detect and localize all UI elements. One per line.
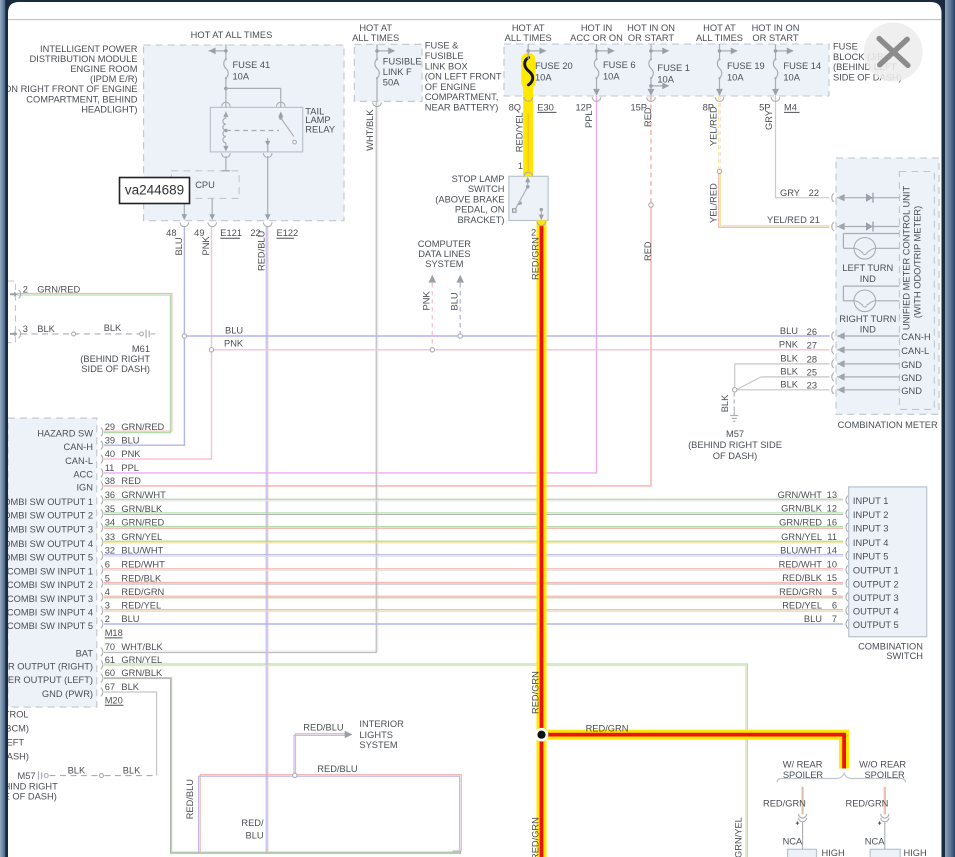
svg-text:RED/BLU: RED/BLU	[303, 722, 343, 732]
svg-text:STOP LAMP: STOP LAMP	[452, 174, 505, 184]
svg-text:10A: 10A	[535, 73, 552, 83]
svg-text:GND: GND	[901, 386, 922, 396]
svg-text:RED/BLU: RED/BLU	[256, 231, 266, 271]
svg-text:BLK: BLK	[121, 682, 139, 692]
svg-text:LIGHTS: LIGHTS	[359, 730, 393, 740]
svg-text:CPU: CPU	[195, 180, 215, 190]
svg-text:48: 48	[166, 228, 176, 238]
svg-text:COMBI SW INPUT 4: COMBI SW INPUT 4	[7, 607, 93, 617]
svg-text:11: 11	[105, 463, 115, 473]
svg-text:BLK: BLK	[780, 354, 798, 364]
svg-text:10A: 10A	[783, 73, 800, 83]
svg-text:OR START: OR START	[628, 33, 674, 43]
svg-text:5: 5	[832, 587, 837, 597]
svg-text:IGN: IGN	[76, 483, 93, 493]
svg-text:IND: IND	[860, 324, 876, 334]
svg-text:RED/GRN: RED/GRN	[846, 799, 889, 809]
svg-text:COMPARTMENT,: COMPARTMENT,	[425, 92, 499, 102]
svg-text:FUSE 20: FUSE 20	[535, 61, 573, 71]
svg-text:RED/GRN: RED/GRN	[586, 723, 629, 733]
svg-text:BLU: BLU	[804, 614, 822, 624]
svg-text:INPUT 2: INPUT 2	[853, 510, 888, 520]
svg-text:BLU: BLU	[121, 614, 139, 624]
svg-text:GRN/YEL: GRN/YEL	[781, 532, 822, 542]
svg-text:SIDE OF DASH): SIDE OF DASH)	[81, 364, 150, 374]
svg-text:RED/YEL: RED/YEL	[782, 600, 822, 610]
svg-text:SYSTEM: SYSTEM	[425, 259, 463, 269]
svg-text:PNK: PNK	[779, 340, 799, 350]
svg-text:M18: M18	[105, 628, 123, 638]
svg-text:FUSE 41: FUSE 41	[233, 60, 271, 70]
svg-text:HOT AT: HOT AT	[359, 23, 392, 33]
svg-text:YEL/RED: YEL/RED	[708, 183, 718, 223]
svg-text:GRN/YEL: GRN/YEL	[121, 655, 162, 665]
svg-text:BAT: BAT	[76, 649, 94, 659]
svg-text:GRN/RED: GRN/RED	[779, 517, 822, 527]
svg-text:COMBI SW OUTPUT 2: COMBI SW OUTPUT 2	[0, 511, 93, 521]
svg-text:70: 70	[105, 642, 115, 652]
svg-text:FLASHER OUTPUT (LEFT): FLASHER OUTPUT (LEFT)	[0, 675, 93, 685]
svg-text:HAZARD SW: HAZARD SW	[37, 429, 93, 439]
svg-text:GRN/WHT: GRN/WHT	[121, 490, 166, 500]
svg-text:GRN/RED: GRN/RED	[121, 518, 164, 528]
svg-text:33: 33	[105, 532, 115, 542]
svg-text:PEDAL, ON: PEDAL, ON	[455, 205, 505, 215]
svg-text:RELAY: RELAY	[305, 125, 335, 135]
svg-text:GRY: GRY	[764, 110, 774, 130]
svg-text:M57: M57	[726, 429, 744, 439]
svg-text:W/ REAR: W/ REAR	[783, 759, 823, 769]
svg-text:6: 6	[105, 560, 110, 570]
svg-text:7: 7	[832, 614, 837, 624]
svg-text:(ABOVE BRAKE: (ABOVE BRAKE	[435, 195, 504, 205]
svg-text:2: 2	[23, 284, 28, 294]
svg-text:BLK: BLK	[780, 367, 798, 377]
svg-text:10A: 10A	[233, 71, 250, 81]
svg-text:OR START: OR START	[752, 33, 798, 43]
svg-text:GRN/RED: GRN/RED	[121, 422, 164, 432]
svg-text:26: 26	[807, 327, 817, 337]
svg-text:RED/GRN: RED/GRN	[531, 671, 541, 714]
svg-text:LEFT TURN: LEFT TURN	[842, 263, 893, 273]
svg-text:36: 36	[105, 490, 115, 500]
svg-text:60: 60	[105, 668, 115, 678]
svg-text:RED/GRN: RED/GRN	[531, 817, 541, 857]
svg-text:OUTPUT 1: OUTPUT 1	[853, 566, 899, 576]
svg-text:6: 6	[832, 600, 837, 610]
svg-text:(WITH ODO/TRIP METER): (WITH ODO/TRIP METER)	[913, 206, 923, 318]
svg-text:21: 21	[810, 215, 820, 225]
svg-text:RED/GRN: RED/GRN	[779, 587, 822, 597]
svg-text:OF ENGINE: OF ENGINE	[425, 82, 476, 92]
svg-text:WHT/BLK: WHT/BLK	[121, 642, 163, 652]
svg-text:FUSE: FUSE	[833, 41, 858, 51]
svg-text:E121: E121	[220, 228, 242, 238]
svg-text:NEAR BATTERY): NEAR BATTERY)	[425, 103, 499, 113]
svg-text:RED/YEL: RED/YEL	[121, 601, 161, 611]
svg-text:COMBI SW OUTPUT 3: COMBI SW OUTPUT 3	[0, 524, 93, 534]
svg-text:50A: 50A	[383, 77, 400, 87]
svg-text:32: 32	[105, 546, 115, 556]
svg-text:GND (PWR): GND (PWR)	[42, 689, 93, 699]
svg-text:CAN-L: CAN-L	[901, 346, 929, 356]
svg-text:RED: RED	[121, 476, 141, 486]
svg-text:M20: M20	[105, 695, 123, 705]
svg-text:SPOILER: SPOILER	[783, 770, 824, 780]
svg-text:GRN/BLK: GRN/BLK	[121, 668, 163, 678]
svg-text:DATA LINES: DATA LINES	[418, 249, 470, 259]
svg-text:3: 3	[23, 324, 28, 334]
svg-text:ENGINE ROOM: ENGINE ROOM	[70, 64, 137, 74]
svg-text:HOT IN ON: HOT IN ON	[752, 23, 800, 33]
svg-text:BLK: BLK	[123, 766, 141, 776]
svg-text:UNIFIED METER CONTROL UNIT: UNIFIED METER CONTROL UNIT	[902, 186, 912, 331]
svg-text:HOT AT: HOT AT	[703, 23, 736, 33]
svg-text:COMBI SW INPUT 5: COMBI SW INPUT 5	[7, 621, 93, 631]
svg-text:BLU: BLU	[174, 237, 184, 255]
svg-text:29: 29	[105, 422, 115, 432]
svg-text:BLU: BLU	[246, 831, 264, 841]
svg-text:FUSIBLE: FUSIBLE	[425, 51, 464, 61]
svg-text:HIGH: HIGH	[822, 848, 845, 857]
svg-text:COMBI SW INPUT 2: COMBI SW INPUT 2	[7, 580, 93, 590]
svg-text:GND: GND	[901, 360, 922, 370]
svg-text:RIGHT TURN: RIGHT TURN	[839, 314, 896, 324]
svg-text:61: 61	[105, 655, 115, 665]
svg-text:38: 38	[105, 476, 115, 486]
svg-text:PPL: PPL	[584, 110, 594, 128]
svg-text:28: 28	[807, 355, 817, 365]
svg-text:LINK F: LINK F	[383, 67, 412, 77]
svg-text:RED/BLU: RED/BLU	[317, 764, 357, 774]
svg-text:8Q: 8Q	[509, 102, 521, 112]
svg-text:39: 39	[105, 435, 115, 445]
svg-text:FUSE &: FUSE &	[425, 41, 459, 51]
svg-text:SIDE OF DASH): SIDE OF DASH)	[0, 791, 57, 801]
svg-text:GND: GND	[901, 373, 922, 383]
svg-text:CAN-H: CAN-H	[901, 332, 930, 342]
svg-text:HOT IN: HOT IN	[581, 23, 612, 33]
svg-text:(ON RIGHT FRONT OF ENGINE: (ON RIGHT FRONT OF ENGINE	[1, 84, 138, 94]
svg-text:HOT IN ON: HOT IN ON	[627, 23, 675, 33]
svg-text:OUTPUT 4: OUTPUT 4	[853, 607, 899, 617]
svg-text:25: 25	[807, 368, 817, 378]
svg-text:COMBI SW INPUT 3: COMBI SW INPUT 3	[7, 594, 93, 604]
svg-text:INTELLIGENT POWER: INTELLIGENT POWER	[40, 44, 138, 54]
svg-text:FLASHER OUTPUT (RIGHT): FLASHER OUTPUT (RIGHT)	[0, 662, 93, 672]
svg-text:ALL TIMES: ALL TIMES	[696, 33, 743, 43]
svg-text:W/O REAR: W/O REAR	[859, 759, 906, 769]
svg-text:SPOILER: SPOILER	[864, 770, 905, 780]
svg-text:BLK: BLK	[780, 380, 798, 390]
svg-text:35: 35	[105, 504, 115, 514]
svg-text:E30: E30	[537, 102, 554, 112]
svg-text:10A: 10A	[657, 75, 674, 85]
svg-text:2: 2	[105, 614, 110, 624]
svg-text:27: 27	[807, 341, 817, 351]
svg-text:INTERIOR: INTERIOR	[359, 719, 404, 729]
svg-text:1: 1	[518, 161, 523, 171]
svg-text:11: 11	[827, 532, 837, 542]
svg-text:40: 40	[105, 449, 115, 459]
svg-text:BRACKET): BRACKET)	[457, 215, 504, 225]
svg-text:GRN/BLK: GRN/BLK	[781, 504, 823, 514]
svg-text:67: 67	[105, 682, 115, 692]
svg-text:ACC OR ON: ACC OR ON	[570, 33, 623, 43]
svg-text:BLK: BLK	[37, 324, 55, 334]
svg-text:va244689: va244689	[125, 183, 184, 198]
svg-text:10: 10	[827, 559, 837, 569]
svg-text:OUTPUT 3: OUTPUT 3	[853, 593, 899, 603]
svg-text:ACC: ACC	[73, 470, 93, 480]
svg-text:(BEHIND RIGHT: (BEHIND RIGHT	[0, 782, 58, 792]
svg-text:15: 15	[827, 573, 837, 583]
svg-text:GRN/WHT: GRN/WHT	[778, 490, 823, 500]
svg-text:SYSTEM: SYSTEM	[359, 740, 397, 750]
svg-text:HEADLIGHT): HEADLIGHT)	[81, 104, 137, 114]
svg-text:CAN-L: CAN-L	[65, 456, 93, 466]
svg-text:PNK: PNK	[121, 449, 141, 459]
svg-text:RED/WHT: RED/WHT	[121, 560, 165, 570]
svg-text:COMBI SW OUTPUT 4: COMBI SW OUTPUT 4	[0, 539, 93, 549]
svg-text:COMBI SW OUTPUT 1: COMBI SW OUTPUT 1	[0, 497, 93, 507]
svg-text:PPL: PPL	[121, 463, 139, 473]
svg-text:M57: M57	[18, 771, 36, 781]
svg-text:YEL/RED: YEL/RED	[708, 106, 718, 146]
svg-text:GRN/RED: GRN/RED	[37, 284, 80, 294]
svg-text:RED/BLK: RED/BLK	[782, 573, 823, 583]
svg-text:2: 2	[531, 227, 536, 237]
svg-text:ALL TIMES: ALL TIMES	[352, 33, 399, 43]
svg-text:FUSE 14: FUSE 14	[783, 61, 821, 71]
svg-text:4: 4	[105, 587, 110, 597]
svg-text:HIGH: HIGH	[904, 848, 927, 857]
svg-text:HOT AT ALL TIMES: HOT AT ALL TIMES	[191, 30, 273, 40]
svg-text:(ON LEFT FRONT: (ON LEFT FRONT	[425, 72, 502, 82]
svg-text:WHT/BLK: WHT/BLK	[365, 109, 375, 151]
svg-text:22: 22	[809, 188, 819, 198]
svg-text:BLU: BLU	[225, 326, 243, 336]
svg-text:BLU/WHT: BLU/WHT	[780, 545, 822, 555]
svg-text:INPUT 5: INPUT 5	[853, 552, 888, 562]
svg-text:FUSIBLE: FUSIBLE	[383, 57, 422, 67]
svg-text:GRY: GRY	[780, 188, 800, 198]
svg-text:BLU: BLU	[780, 326, 798, 336]
svg-text:BLK: BLK	[104, 323, 122, 333]
svg-text:DISTRIBUTION MODULE: DISTRIBUTION MODULE	[30, 54, 138, 64]
svg-text:INPUT 1: INPUT 1	[853, 496, 888, 506]
svg-text:PNK: PNK	[422, 291, 432, 311]
svg-text:COMBINATION: COMBINATION	[858, 641, 923, 651]
svg-text:RED/BLU: RED/BLU	[185, 779, 195, 819]
svg-text:BLK: BLK	[720, 394, 730, 412]
svg-text:BLU/WHT: BLU/WHT	[121, 546, 163, 556]
svg-text:14: 14	[827, 545, 837, 555]
svg-text:GRN/YEL: GRN/YEL	[121, 532, 162, 542]
svg-text:M61: M61	[132, 344, 150, 354]
svg-text:RED/WHT: RED/WHT	[779, 559, 823, 569]
svg-text:COMBINATION METER: COMBINATION METER	[838, 420, 938, 430]
svg-text:PNK: PNK	[201, 236, 211, 256]
svg-text:SWITCH: SWITCH	[468, 184, 505, 194]
svg-text:GRN/YEL: GRN/YEL	[734, 817, 744, 857]
svg-text:(BEHIND RIGHT: (BEHIND RIGHT	[80, 354, 150, 364]
svg-text:RED: RED	[643, 241, 653, 261]
svg-text:E122: E122	[277, 228, 299, 238]
svg-text:PNK: PNK	[224, 339, 244, 349]
svg-text:(IPDM E/R): (IPDM E/R)	[90, 74, 138, 84]
svg-text:RED: RED	[643, 107, 653, 127]
svg-text:OUTPUT 2: OUTPUT 2	[853, 579, 899, 589]
svg-text:RED/GRN: RED/GRN	[531, 237, 541, 280]
svg-text:10A: 10A	[727, 73, 744, 83]
svg-text:RED/GRN: RED/GRN	[763, 799, 806, 809]
svg-text:RED/YEL: RED/YEL	[515, 112, 525, 152]
svg-text:5: 5	[105, 573, 110, 583]
svg-text:GRN/BLK: GRN/BLK	[121, 504, 163, 514]
svg-text:M4: M4	[784, 102, 797, 112]
svg-text:BLU: BLU	[449, 292, 459, 310]
svg-text:SWITCH: SWITCH	[886, 651, 923, 661]
svg-text:COMBI SW INPUT 1: COMBI SW INPUT 1	[7, 566, 93, 576]
svg-text:YEL/RED: YEL/RED	[767, 215, 807, 225]
svg-text:COMBI SW OUTPUT 5: COMBI SW OUTPUT 5	[0, 552, 93, 562]
svg-text:RED/: RED/	[241, 818, 264, 828]
svg-text:NCA: NCA	[783, 836, 803, 846]
svg-text:LINK BOX: LINK BOX	[425, 61, 468, 71]
svg-text:RED/BLK: RED/BLK	[121, 573, 162, 583]
svg-text:OUTPUT 5: OUTPUT 5	[853, 620, 899, 630]
svg-text:COMPUTER: COMPUTER	[418, 239, 471, 249]
svg-text:13: 13	[827, 490, 837, 500]
svg-text:RED/GRN: RED/GRN	[121, 587, 164, 597]
svg-text:FUSE 1: FUSE 1	[657, 63, 690, 73]
svg-text:INPUT 4: INPUT 4	[853, 538, 888, 548]
svg-text:34: 34	[105, 518, 115, 528]
svg-text:23: 23	[807, 381, 817, 391]
svg-text:FUSE 19: FUSE 19	[727, 61, 765, 71]
svg-text:HOT AT: HOT AT	[512, 23, 545, 33]
svg-text:CAN-H: CAN-H	[64, 442, 93, 452]
svg-text:16: 16	[827, 517, 837, 527]
svg-text:FUSE 6: FUSE 6	[603, 60, 636, 70]
svg-text:ALL TIMES: ALL TIMES	[505, 33, 552, 43]
svg-text:INPUT 3: INPUT 3	[853, 524, 888, 534]
svg-text:IND: IND	[860, 274, 876, 284]
svg-text:BLK: BLK	[68, 766, 86, 776]
svg-text:COMPARTMENT, BEHIND: COMPARTMENT, BEHIND	[26, 94, 138, 104]
svg-text:(BEHIND RIGHT SIDE: (BEHIND RIGHT SIDE	[688, 440, 782, 450]
svg-text:OF DASH): OF DASH)	[713, 451, 757, 461]
svg-text:BLU: BLU	[121, 435, 139, 445]
svg-text:10A: 10A	[603, 72, 620, 82]
svg-text:NCA: NCA	[865, 836, 885, 846]
svg-text:12: 12	[827, 504, 837, 514]
svg-text:3: 3	[105, 601, 110, 611]
